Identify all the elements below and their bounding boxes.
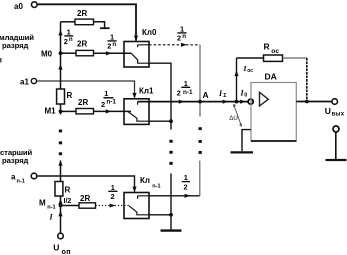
svg-text:2: 2 (101, 100, 105, 109)
svg-text:ос: ос (271, 48, 279, 55)
svg-text:2R: 2R (77, 9, 87, 18)
dotted wire 2R to Кл n-1 (96, 205, 130, 207)
svg-text:M1: M1 (45, 107, 57, 116)
terminal a0 (32, 2, 38, 8)
svg-text:1: 1 (104, 89, 108, 98)
wire 2R to ground stub (94, 22, 105, 28)
terminal Uоп (58, 233, 64, 239)
svg-text:n-1: n-1 (106, 99, 116, 106)
dashed wire Кл0 to bus (149, 44, 200, 46)
svg-text:I/2: I/2 (64, 198, 72, 205)
svg-text:a1: a1 (20, 78, 29, 87)
svg-text:Кл: Кл (140, 176, 150, 185)
terminal a n-1 (31, 173, 37, 179)
svg-text:оп: оп (62, 247, 71, 255)
wire Кл n-1 top output to bus (149, 195, 200, 197)
fraction 1/2 above output (182, 173, 190, 191)
svg-text:n: n (182, 33, 186, 40)
switch Кл1 (124, 87, 154, 125)
arrow up (58, 64, 62, 70)
svg-text:2: 2 (177, 88, 181, 97)
node M n-1 (59, 204, 63, 208)
ground plus input (231, 151, 254, 153)
svg-text:разряд: разряд (2, 156, 28, 165)
fraction 1/2^n-1 above summing wire (177, 79, 193, 98)
terminal ground output (333, 126, 339, 132)
svg-text:1: 1 (184, 173, 188, 182)
ground stub (100, 27, 110, 29)
terminal Uвых (332, 99, 338, 105)
fraction 1/2^n before Кл0 (107, 33, 116, 51)
svg-text:a: a (11, 173, 16, 182)
fraction 1/2^n above dashed wire (177, 25, 187, 43)
svg-text:A: A (203, 90, 209, 100)
wire Кл0 bottom to dump line (149, 63, 171, 129)
wire Кл n-1 bottom to dump (149, 214, 171, 216)
svg-text:2: 2 (184, 182, 188, 191)
wire dump lower (170, 174, 172, 230)
dots M column (59, 130, 62, 156)
ground dump (161, 229, 182, 231)
op-amp DA (251, 71, 296, 141)
svg-text:M0: M0 (41, 50, 53, 59)
wire M0 to M1 (60, 53, 62, 89)
summing wire (138, 101, 249, 103)
svg-text:2: 2 (111, 192, 115, 201)
svg-text:n: n (112, 41, 116, 48)
wire Кл1 bottom to dump junction (149, 120, 171, 122)
svg-text:2R: 2R (80, 194, 90, 203)
wire a n-1 to Кл n-1 (37, 176, 135, 192)
svg-text:ΔU: ΔU (229, 115, 238, 122)
ground output (326, 159, 347, 161)
wire a0 to Кл0 (37, 4, 136, 40)
wire output (296, 101, 332, 103)
svg-text:U: U (325, 106, 331, 116)
wire bus vertical upper (199, 45, 201, 117)
resistor 2R bit n-1 (61, 205, 80, 207)
svg-text:DA: DA (265, 71, 277, 81)
svg-text:a0: a0 (14, 2, 23, 11)
wire feedback left vertical (236, 58, 238, 102)
svg-text:1: 1 (184, 79, 188, 88)
svg-text:n-1: n-1 (17, 179, 25, 185)
node A (198, 100, 202, 104)
svg-text:вых: вых (332, 111, 345, 117)
dots bus line (199, 127, 202, 154)
svg-text:R: R (65, 186, 71, 195)
svg-text:Кл1: Кл1 (139, 87, 154, 96)
svg-text:2R: 2R (78, 98, 88, 107)
junction dump bottom (169, 213, 173, 217)
junction feedback (235, 100, 239, 104)
svg-text:разряд: разряд (2, 41, 28, 50)
resistor Rос (264, 55, 283, 61)
junction dump (169, 119, 173, 123)
terminal a1 (31, 78, 36, 83)
svg-text:R: R (264, 42, 270, 52)
resistor 2R terminator (61, 21, 76, 23)
svg-text:2: 2 (64, 37, 68, 46)
wire 2R to Кл0 (94, 52, 132, 54)
svg-text:n-1: n-1 (47, 205, 55, 211)
wire M column top (60, 22, 62, 53)
svg-text:n: n (69, 36, 73, 43)
wire op-amp plus input (242, 130, 251, 152)
svg-text:2R: 2R (77, 39, 87, 48)
svg-text:n-1: n-1 (152, 184, 160, 190)
label ΔU with leader (234, 105, 242, 126)
svg-text:M: M (39, 199, 46, 208)
junction output feedback (305, 100, 309, 104)
fraction 1/2^n at M0 (64, 28, 73, 46)
node M1 (59, 110, 63, 114)
wire M column lower (60, 161, 62, 182)
wire Rос to output (283, 57, 307, 59)
node M0 (59, 51, 63, 55)
wire to ground (335, 132, 337, 159)
resistor R bit1 (57, 89, 65, 104)
fraction 1/2^n-1 before Кл1 (101, 89, 116, 109)
arrow I/2 (58, 199, 62, 205)
svg-text:2: 2 (177, 33, 181, 42)
wire feedback top (237, 57, 264, 59)
svg-text:0: 0 (244, 93, 247, 99)
node circle op-amp input (248, 99, 253, 104)
resistor R bit n-1 (55, 182, 63, 197)
edge artifacts (0, 58, 2, 63)
switch Кл n-1 (124, 176, 161, 218)
svg-text:Кл0: Кл0 (142, 28, 157, 37)
dots dump line (169, 140, 172, 165)
fraction 1/2 before Кл n-1 (108, 183, 117, 201)
svg-text:U: U (53, 243, 59, 253)
svg-text:R: R (67, 91, 73, 100)
svg-text:ос: ос (247, 68, 253, 74)
wire 2R to Кл1 (94, 110, 132, 112)
switch Кл0 (124, 28, 157, 67)
resistor 2R bit 1 (61, 110, 77, 112)
wire a1 to Кл1 (37, 81, 135, 98)
svg-text:n-1: n-1 (183, 89, 193, 96)
arrow up current 1/2^n (58, 30, 62, 36)
svg-text:2: 2 (107, 41, 111, 50)
resistor 2R bit 0 (61, 52, 77, 54)
wire to Uоп (58, 211, 62, 217)
